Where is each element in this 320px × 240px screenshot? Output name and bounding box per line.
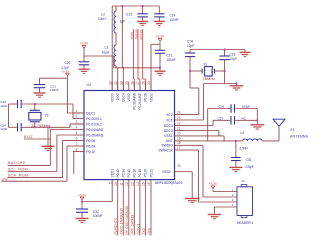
node C31 junction — [235, 140, 237, 142]
svg-text:33: 33 — [177, 164, 181, 168]
svg-text:AD05: AD05 — [130, 32, 134, 40]
U4 right pin numbers — [177, 110, 181, 168]
capacitor C19 — [219, 50, 236, 72]
svg-text:SWDIO: SWDIO — [161, 144, 173, 148]
svg-text:RF_CMD_DATA018: RF_CMD_DATA018 — [125, 206, 129, 235]
U4 top pin numbers — [108, 81, 151, 85]
wire SWDIO — [186, 145, 238, 197]
svg-text:P0.30/AIN6: P0.30/AIN6 — [133, 93, 137, 110]
IC U4 body — [84, 83, 183, 185]
svg-text:PWRCHCK: PWRCHCK — [114, 217, 118, 234]
ground header — [208, 215, 222, 219]
ground C20 — [79, 69, 90, 73]
ground antenna caps — [250, 120, 264, 129]
svg-text:HEADER 4: HEADER 4 — [237, 221, 254, 225]
node C32 junction — [81, 200, 83, 202]
node C26-C27 junction — [256, 119, 258, 121]
svg-text:28: 28 — [131, 81, 135, 85]
node Y2 top junction — [34, 103, 36, 105]
svg-text:XC1: XC1 — [166, 118, 173, 122]
svg-text:KCS18: KCS18 — [139, 30, 143, 40]
svg-text:J1: J1 — [241, 179, 245, 183]
svg-text:BATCHK: BATCHK — [8, 161, 27, 165]
svg-text:23: 23 — [177, 116, 181, 120]
ground C32 — [76, 218, 89, 222]
svg-text:C14: C14 — [170, 14, 176, 18]
svg-text:ANT: ANT — [166, 139, 173, 143]
node DCC-C21 junction — [159, 67, 161, 69]
svg-text:NC: NC — [242, 116, 247, 120]
wire XL2 riser — [70, 124, 84, 127]
svg-text:VDD1: VDD1 — [111, 169, 115, 178]
capacitor C25 — [0, 100, 73, 108]
svg-text:P0.18: P0.18 — [138, 169, 142, 178]
svg-text:P0.05/AIN3: P0.05/AIN3 — [86, 133, 103, 137]
svg-text:1: 1 — [76, 109, 78, 113]
ground C13 — [137, 21, 148, 25]
capacitor C14 — [154, 6, 178, 22]
svg-text:C32: C32 — [93, 210, 99, 214]
svg-text:4: 4 — [76, 126, 78, 130]
svg-text:Y2: Y2 — [45, 114, 49, 118]
svg-text:L4: L4 — [241, 131, 245, 135]
node Y1 right junction — [224, 70, 226, 72]
svg-text:32: 32 — [108, 81, 112, 85]
wire DCC node horizontal — [115, 68, 161, 91]
svg-text:9: 9 — [108, 182, 112, 184]
svg-text:22: 22 — [177, 121, 181, 125]
wire VDD3 riser — [111, 6, 113, 91]
svg-text:100nF: 100nF — [50, 88, 59, 92]
svg-text:10nH: 10nH — [98, 17, 106, 21]
node DCC rail junction — [121, 5, 123, 7]
svg-text:P0.16: P0.16 — [133, 169, 137, 178]
svg-text:DEC4: DEC4 — [122, 93, 126, 102]
svg-text:+3.3V: +3.3V — [78, 193, 87, 197]
node C19 rail junction — [224, 48, 226, 50]
svg-text:8: 8 — [76, 148, 78, 152]
U4 bottom pin numbers — [108, 182, 151, 186]
capacitor C31 — [231, 141, 254, 169]
wire XL1 riser — [72, 104, 74, 119]
svg-text:25: 25 — [147, 81, 151, 85]
power +3.3V VDD1 — [78, 193, 87, 201]
wire DEC1 — [67, 78, 84, 113]
ground C31 — [229, 167, 242, 171]
svg-text:L2: L2 — [102, 13, 106, 17]
node Y1 gnd junction — [235, 82, 237, 84]
capacitor C27 — [213, 116, 257, 124]
capacitor C13 — [120, 6, 148, 24]
svg-text:16MHz: 16MHz — [203, 77, 216, 81]
svg-text:P0.29/AIN5: P0.29/AIN5 — [138, 93, 142, 110]
U4 right pin stubs — [175, 115, 186, 172]
svg-text:DCC: DCC — [116, 93, 120, 101]
power +3.3V DEC1 — [61, 69, 70, 78]
svg-text:18: 18 — [177, 141, 181, 145]
U4 left pin stubs — [73, 113, 84, 152]
svg-text:P0.26: P0.26 — [144, 93, 148, 102]
svg-text:100NF: 100NF — [93, 214, 103, 218]
ground C21 node — [155, 68, 166, 76]
inductor L4 — [239, 131, 262, 150]
svg-text:P0.21: P0.21 — [149, 169, 153, 178]
power +3.3V C20 — [80, 42, 89, 56]
svg-text:P0.15: P0.15 — [127, 169, 131, 178]
svg-text:RXD: RXD — [147, 227, 151, 234]
svg-text:DEC2: DEC2 — [164, 129, 173, 133]
svg-text:P0.09: P0.09 — [86, 144, 95, 148]
svg-text:P0.10: P0.10 — [86, 150, 95, 154]
svg-text:100nF: 100nF — [167, 58, 176, 62]
svg-text:31: 31 — [114, 81, 118, 85]
wire header gnd — [215, 207, 238, 214]
wire XC2 route — [186, 71, 199, 115]
svg-text:12pF: 12pF — [230, 57, 237, 61]
U4 left pin names — [86, 111, 103, 154]
node cascade junctions — [223, 140, 225, 142]
svg-text:16: 16 — [147, 182, 151, 186]
node Y2 gnd junction — [47, 126, 49, 128]
svg-text:12pF: 12pF — [0, 127, 7, 131]
capacitor C32 — [76, 202, 103, 219]
svg-text:C20: C20 — [65, 61, 71, 65]
inductor L2 — [98, 6, 116, 33]
svg-text:P0.20: P0.20 — [144, 169, 148, 178]
svg-text:ANTENNA: ANTENNA — [290, 135, 309, 139]
net BUZ — [24, 135, 50, 139]
net BATCHK — [8, 130, 73, 166]
crystal Y1 — [190, 62, 225, 81]
svg-text:+3.3V: +3.3V — [156, 35, 165, 39]
svg-text:3.9nH: 3.9nH — [239, 146, 248, 150]
wire +3.3V stem — [159, 42, 161, 51]
svg-text:1µF: 1µF — [120, 20, 126, 24]
node Y2 bottom junction — [34, 126, 36, 128]
svg-text:7: 7 — [76, 142, 78, 146]
svg-text:VSS3: VSS3 — [162, 170, 171, 174]
svg-text:100nF: 100nF — [170, 18, 179, 22]
ground Y1 right — [230, 84, 244, 91]
svg-text:P0.00/XL1: P0.00/XL1 — [86, 117, 102, 121]
net RF_CMD_DATA018 — [125, 189, 129, 236]
net TXRX_ENABLE18 — [120, 189, 124, 236]
svg-text:P0.06: P0.06 — [86, 139, 95, 143]
net PWRCHCK — [114, 189, 118, 236]
node Y1 left junction — [189, 70, 191, 72]
wire Y1 ground rail — [190, 49, 245, 51]
U4 top pin stubs — [112, 82, 151, 91]
connector J1 HEADER 4 — [232, 179, 254, 225]
wire C26 left drop — [207, 109, 209, 141]
wire DEC2 cascade — [186, 131, 219, 136]
wire VDD2 branch — [151, 44, 160, 90]
svg-text:DEC1: DEC1 — [86, 111, 95, 115]
svg-text:SCA_ROM: SCA_ROM — [8, 173, 29, 177]
capacitor C20 — [61, 56, 114, 70]
net TRX_DATA18 — [131, 189, 135, 236]
svg-text:+3.3V: +3.3V — [80, 42, 89, 46]
ground VSS — [185, 199, 200, 203]
net SW — [1, 146, 73, 181]
svg-text:21: 21 — [177, 126, 181, 130]
svg-text:L3: L3 — [105, 46, 109, 50]
svg-text:BUZ: BUZ — [24, 135, 33, 139]
net TMES wire — [134, 29, 140, 91]
svg-text:P0.04/AIN2: P0.04/AIN2 — [86, 128, 103, 132]
net AD wire — [130, 29, 135, 91]
ground Y2 — [42, 127, 55, 150]
wire XC1 route — [186, 71, 237, 120]
svg-text:100pF: 100pF — [242, 105, 251, 109]
svg-text:14: 14 — [136, 182, 140, 186]
svg-text:XC2: XC2 — [166, 113, 173, 117]
svg-text:P0.01/XL2: P0.01/XL2 — [86, 122, 102, 126]
net DCDC1 — [136, 189, 140, 236]
svg-text:C31: C31 — [246, 158, 252, 162]
svg-text:C26: C26 — [219, 105, 225, 109]
svg-text:TMES8: TMES8 — [134, 29, 138, 39]
U4 bottom pin stubs — [112, 180, 151, 189]
capacitor C18 — [185, 40, 195, 72]
svg-text:0.8pF: 0.8pF — [246, 165, 254, 169]
capacitor C24 — [0, 123, 70, 131]
net KCS wire — [139, 29, 145, 91]
svg-text:VSS2: VSS2 — [127, 93, 131, 101]
ground C23 — [34, 93, 46, 97]
svg-text:29: 29 — [125, 81, 129, 85]
wire DEC3 cascade — [186, 120, 214, 125]
svg-text:SCL_ROM: SCL_ROM — [8, 167, 29, 171]
svg-text:11: 11 — [120, 182, 124, 186]
inductor L3 — [102, 45, 117, 68]
svg-text:12pF: 12pF — [0, 104, 7, 108]
antenna E1 — [273, 119, 309, 141]
wire P0.10 riser — [73, 152, 75, 175]
svg-text:TRX_DATA18: TRX_DATA18 — [131, 215, 135, 235]
svg-text:TXD: TXD — [142, 227, 146, 234]
wire L2-L3 link — [115, 33, 117, 45]
svg-text:12pF: 12pF — [187, 44, 194, 48]
svg-text:SWDCLK: SWDCLK — [158, 148, 173, 152]
svg-text:DCDC1: DCDC1 — [136, 223, 140, 234]
wire cap common — [8, 104, 10, 127]
net RXD — [147, 189, 151, 236]
svg-text:10: 10 — [114, 182, 118, 186]
svg-text:Y1: Y1 — [203, 62, 207, 66]
wire VDD top rail — [112, 5, 159, 7]
wire C26 right drop — [256, 109, 258, 121]
svg-text:P0.14: P0.14 — [122, 169, 126, 178]
ground C14 — [154, 21, 165, 25]
svg-text:19: 19 — [177, 137, 181, 141]
svg-text:2: 2 — [76, 115, 78, 119]
wire VDD1 feed — [82, 189, 112, 202]
svg-text:17: 17 — [177, 146, 181, 150]
svg-text:C21: C21 — [167, 54, 173, 58]
U4 top pin names — [111, 93, 154, 110]
svg-text:15: 15 — [142, 182, 146, 186]
svg-text:27: 27 — [136, 81, 140, 85]
svg-text:13: 13 — [131, 182, 135, 186]
svg-text:C27: C27 — [218, 116, 224, 120]
svg-text:P0.12: P0.12 — [116, 169, 120, 178]
svg-text:26: 26 — [142, 81, 146, 85]
svg-text:6: 6 — [76, 137, 78, 141]
wire L4 to antenna — [262, 140, 279, 142]
wire DEC4 riser — [122, 6, 123, 91]
crystal Y2 — [29, 104, 51, 128]
svg-text:3: 3 — [76, 120, 78, 124]
wire ANT row — [186, 140, 243, 142]
svg-text:+3.3V: +3.3V — [209, 182, 218, 186]
net SCL_ROM — [8, 135, 73, 172]
svg-text:VDD2: VDD2 — [149, 93, 153, 102]
ground Y1 rail — [240, 50, 251, 57]
U4 bottom pin names — [111, 169, 154, 178]
svg-text:5: 5 — [76, 131, 78, 135]
svg-text:VDD3: VDD3 — [111, 93, 115, 102]
svg-text:NRF51822QFAA02: NRF51822QFAA02 — [155, 181, 183, 185]
svg-text:DEC3: DEC3 — [164, 124, 173, 128]
svg-text:+3.3V: +3.3V — [61, 69, 70, 73]
net TXD — [142, 189, 146, 236]
svg-text:U4: U4 — [87, 83, 91, 87]
wire SWDCLK — [186, 150, 238, 202]
wire VSS3 — [186, 172, 193, 199]
U4 left pin numbers — [76, 109, 78, 152]
svg-text:TXRX_ENABLE18: TXRX_ENABLE18 — [120, 208, 124, 235]
svg-text:30: 30 — [120, 81, 124, 85]
svg-text:24: 24 — [177, 110, 181, 114]
svg-text:20: 20 — [177, 132, 181, 136]
svg-text:10µH: 10µH — [102, 51, 110, 55]
svg-text:C13: C13 — [126, 13, 132, 17]
svg-text:VSS1: VSS1 — [164, 134, 173, 138]
capacitor C26 — [208, 104, 258, 112]
net SDA_ROM — [8, 141, 73, 178]
svg-text:12: 12 — [125, 182, 129, 186]
power +3.3V header — [209, 182, 237, 191]
node C13 rail junction — [142, 5, 144, 7]
U4 right pin names — [158, 113, 173, 174]
capacitor C23 — [34, 78, 68, 92]
power +3.3V VDD2 — [156, 35, 165, 41]
wire VSS1 cascade — [186, 136, 225, 141]
svg-text:E1: E1 — [291, 128, 295, 132]
capacitor C21 — [155, 50, 176, 68]
